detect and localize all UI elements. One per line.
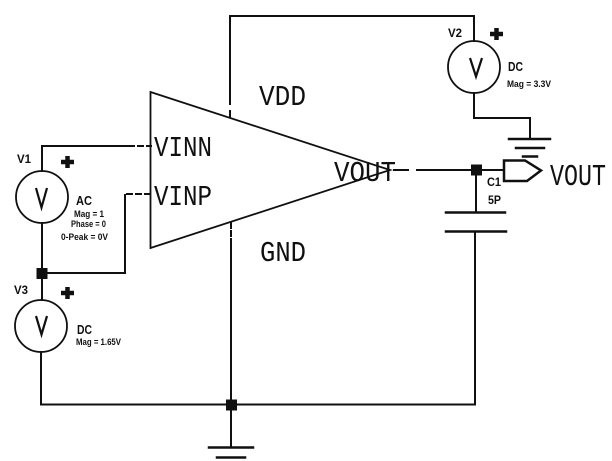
wire GND stub solid down to rail — [230, 242, 232, 400]
svg-text:VDD: VDD — [259, 81, 306, 114]
voltage source V3 circle — [15, 300, 67, 352]
svg-text:Mag = 3.3V: Mag = 3.3V — [507, 79, 551, 89]
label V symbol in V3 — [36, 316, 47, 335]
svg-text:V2: V2 — [448, 26, 462, 40]
voltage source V1 circle — [16, 171, 68, 223]
svg-text:V3: V3 — [14, 283, 28, 297]
wire VOUT solid to junction — [431, 169, 471, 171]
plus sign V1 — [61, 156, 74, 168]
junction node ground rail — [226, 400, 237, 411]
svg-text:VINP: VINP — [154, 181, 212, 214]
wire C1 bottom stem — [474, 233, 476, 404]
op-amp U1 triangle — [151, 92, 391, 248]
wire VDD stub solid — [229, 16, 231, 96]
wire VINN pin stub dashed — [129, 145, 151, 147]
capacitor C1 plates — [446, 213, 506, 232]
svg-text:Phase = 0: Phase = 0 — [71, 219, 106, 229]
svg-text:DC: DC — [508, 59, 523, 74]
output pin VOUT pentagon — [504, 161, 541, 182]
svg-text:VOUT: VOUT — [550, 160, 606, 195]
svg-text:C1: C1 — [487, 175, 501, 189]
svg-text:AC: AC — [76, 193, 93, 208]
plus sign V3 — [61, 287, 74, 299]
svg-text:V1: V1 — [17, 152, 31, 166]
svg-text:0-Peak = 0V: 0-Peak = 0V — [61, 232, 108, 242]
label V symbol in V2 — [470, 58, 482, 77]
svg-text:5P: 5P — [488, 193, 501, 207]
wire V1 bottom to node — [41, 223, 43, 268]
wire VDD net top horizontal — [230, 15, 474, 17]
svg-text:VOUT: VOUT — [334, 157, 396, 190]
svg-text:GND: GND — [260, 237, 306, 270]
svg-text:Mag = 1: Mag = 1 — [74, 209, 104, 219]
ground symbol bottom center — [209, 405, 253, 458]
wire C1 top stem — [475, 176, 477, 211]
wire node to V3 top — [41, 279, 43, 300]
wire GND pin stub dashed — [230, 223, 232, 242]
wire V2 bottom to ground — [474, 93, 530, 138]
plus sign V2 — [490, 28, 503, 40]
wire V1 to VINN — [42, 146, 127, 171]
svg-text:Mag = 1.65V: Mag = 1.65V — [76, 337, 121, 347]
junction node V1/V3/VINP — [37, 268, 48, 279]
wire junction to output pin — [482, 169, 504, 171]
wire bottom ground rail — [41, 404, 475, 406]
wire V2 top drop — [473, 16, 475, 41]
wire VINP pin stub dashed — [127, 193, 151, 195]
wire VOUT pin stub dashed — [394, 169, 431, 171]
voltage source V2 circle — [448, 41, 500, 93]
wire V3 bottom to ground rail — [40, 352, 42, 405]
wire VDD pin stub dashed — [229, 98, 231, 118]
wire feedback node to VINP — [47, 195, 125, 273]
svg-text:DC: DC — [77, 322, 92, 337]
svg-text:VINN: VINN — [154, 132, 212, 165]
label V symbol in V1 — [36, 188, 47, 208]
ground symbol under V2 — [509, 139, 550, 157]
junction node VOUT/C1 — [471, 165, 482, 176]
